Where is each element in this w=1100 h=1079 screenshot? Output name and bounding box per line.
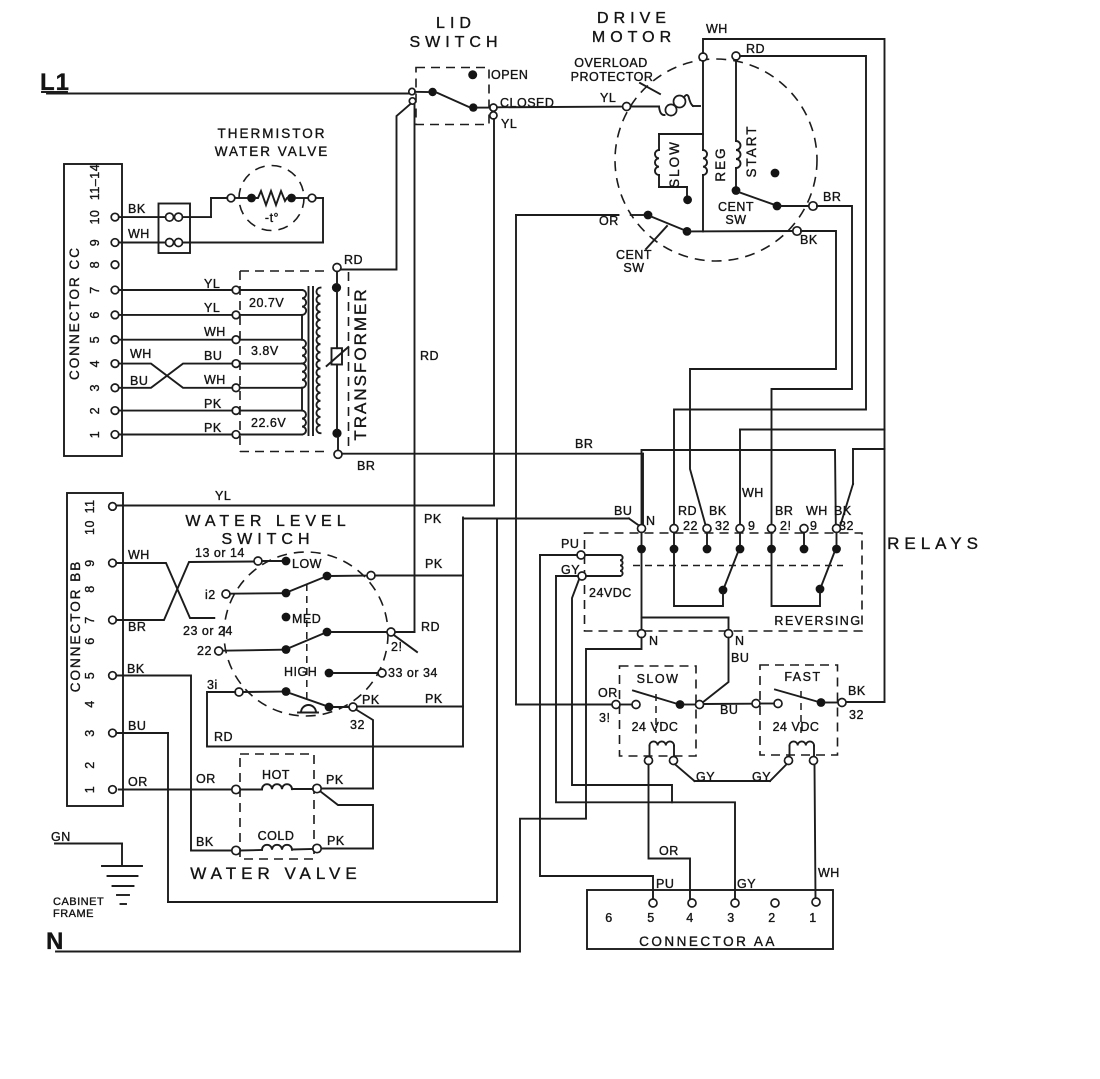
motor run centrifugal switch <box>516 211 793 236</box>
svg-text:WH: WH <box>806 504 828 518</box>
wire BR motor to relay terminal 21 <box>772 206 853 525</box>
svg-text:YL: YL <box>215 489 231 503</box>
label PK hot <box>326 773 344 787</box>
svg-text:PK: PK <box>204 397 222 411</box>
wire L1 line <box>47 93 410 95</box>
wls terminal 11 <box>367 572 375 580</box>
svg-text:HIGH: HIGH <box>284 665 317 679</box>
svg-text:23 or 24: 23 or 24 <box>183 624 233 638</box>
label WH near AA <box>818 866 840 880</box>
svg-text:YL: YL <box>204 277 220 291</box>
wls low contact fixed <box>262 557 290 566</box>
svg-text:OPEN: OPEN <box>491 68 528 82</box>
svg-text:OR: OR <box>196 772 216 786</box>
svg-text:PK: PK <box>424 512 442 526</box>
motor START winding <box>736 60 741 187</box>
svg-text:GY: GY <box>561 563 580 577</box>
svg-text:10: 10 <box>83 520 97 535</box>
connector BB rotated title <box>68 560 83 693</box>
wire PK 32 row <box>357 706 463 708</box>
relay armature dashed line <box>633 565 843 567</box>
wire YL CC pin7 <box>119 289 232 291</box>
svg-text:BU: BU <box>130 374 148 388</box>
thermistor -t label <box>265 211 279 225</box>
transformer voltage label 20.7V <box>249 296 284 310</box>
svg-text:5: 5 <box>83 672 97 679</box>
svg-text:WH: WH <box>204 325 226 339</box>
connector AA box <box>587 890 833 949</box>
svg-text:MED: MED <box>292 612 321 626</box>
wls bell symbol <box>298 705 318 712</box>
relay terminal circles and dots <box>637 525 841 554</box>
svg-text:LID: LID <box>436 15 476 32</box>
svg-text:SW: SW <box>725 213 746 227</box>
svg-text:BU: BU <box>128 719 146 733</box>
wls low-pressure switch <box>243 687 349 711</box>
label SLOW <box>637 672 680 686</box>
svg-text:3: 3 <box>88 384 102 391</box>
label GN <box>51 830 71 844</box>
slow relay box dashed <box>620 666 697 756</box>
svg-text:4: 4 <box>88 360 102 367</box>
motor REG label <box>713 146 728 181</box>
svg-text:2!: 2! <box>780 519 791 533</box>
transformer T1 dashed box <box>240 271 349 452</box>
cold solenoid <box>232 844 321 854</box>
relay contact U left <box>674 553 723 606</box>
svg-text:WH: WH <box>128 548 150 562</box>
wire PK hot valve link <box>321 788 373 790</box>
relay contact U right <box>772 553 821 606</box>
label WH <box>128 227 150 241</box>
motor BR terminal <box>809 190 842 210</box>
svg-text:32: 32 <box>715 519 730 533</box>
svg-text:HOT: HOT <box>262 768 290 782</box>
wls terminal 31 <box>207 678 243 696</box>
wire BK32 branch to relay <box>841 449 885 525</box>
svg-text:PROTECTOR: PROTECTOR <box>571 70 654 84</box>
svg-text:5: 5 <box>647 911 654 925</box>
label GY left <box>696 770 715 784</box>
wire lid CLOSED to motor YL <box>477 107 490 109</box>
svg-text:GY: GY <box>696 770 715 784</box>
thermistor RT1 dashed circle <box>239 166 304 231</box>
lid switch CLOSED label <box>500 96 554 110</box>
label PK wls mid right <box>425 557 443 571</box>
wire GY link between coils <box>675 764 787 781</box>
wls terminal 13/14 <box>195 546 262 565</box>
label MED <box>292 612 321 626</box>
svg-text:-t°: -t° <box>265 211 279 225</box>
wire OR BB pin1 to hot valve <box>119 789 232 791</box>
transformer rotated label <box>351 287 370 440</box>
label BK 32 fast <box>848 684 866 722</box>
svg-text:BK: BK <box>800 233 818 247</box>
svg-text:3: 3 <box>727 911 734 925</box>
label WATER VALVE (bottom) <box>190 864 362 883</box>
svg-text:BU: BU <box>614 504 632 518</box>
svg-text:OR: OR <box>599 214 619 228</box>
svg-text:BK: BK <box>848 684 866 698</box>
svg-text:PK: PK <box>327 834 345 848</box>
svg-text:SLOW: SLOW <box>667 140 682 188</box>
label PU near AA <box>656 877 674 891</box>
svg-text:BR: BR <box>775 504 793 518</box>
relay 24VDC coil <box>577 551 623 580</box>
wire WH fast coil to AA pin 1 <box>815 765 816 899</box>
svg-text:N: N <box>649 634 659 648</box>
wls med switch <box>223 628 387 654</box>
svg-text:CABINET: CABINET <box>53 896 104 908</box>
transformer core <box>309 287 314 435</box>
svg-text:22: 22 <box>683 519 698 533</box>
svg-text:24 VDC: 24 VDC <box>632 720 679 734</box>
wire GY parallel branch <box>572 580 672 803</box>
wire PK CC pin1 <box>119 434 232 436</box>
wls high contact <box>325 669 378 678</box>
svg-text:9: 9 <box>748 519 755 533</box>
svg-text:FAST: FAST <box>784 670 821 684</box>
relay terminal labels <box>614 486 854 533</box>
fast relay coil <box>773 720 820 765</box>
connector CC pins 11-14 label <box>88 164 102 200</box>
label BK <box>128 202 146 216</box>
svg-text:6: 6 <box>88 311 102 318</box>
svg-text:START: START <box>744 124 759 177</box>
slow relay contact <box>620 691 704 734</box>
svg-text:RELAYS: RELAYS <box>887 534 983 553</box>
svg-text:6: 6 <box>83 637 97 644</box>
hot solenoid <box>232 784 321 793</box>
overload protector element <box>631 95 700 116</box>
lid switch OPEN label <box>491 68 528 82</box>
transformer primary terminals <box>232 286 302 438</box>
svg-text:5: 5 <box>88 336 102 343</box>
svg-text:YL: YL <box>204 301 220 315</box>
svg-text:3: 3 <box>83 729 97 736</box>
ground wire <box>55 844 122 867</box>
svg-text:WH: WH <box>742 486 764 500</box>
svg-text:WH: WH <box>128 227 150 241</box>
wire YL lid-switch down to connector BB pin 11 <box>117 119 494 506</box>
label BU under N <box>731 651 749 665</box>
svg-text:33 or 34: 33 or 34 <box>388 666 438 680</box>
wls terminal 33/34 <box>378 666 438 680</box>
svg-text:9: 9 <box>88 239 102 246</box>
svg-text:TRANSFORMER: TRANSFORMER <box>351 287 370 440</box>
label OR 31 <box>598 686 618 725</box>
svg-text:DRIVE: DRIVE <box>597 10 671 27</box>
svg-text:8: 8 <box>83 585 97 592</box>
wire BK motor to relay terminal 32 <box>690 231 836 525</box>
svg-text:2: 2 <box>768 911 775 925</box>
motor OR label <box>599 214 619 228</box>
label LOW <box>292 557 322 571</box>
motor start centrifugal switch <box>732 186 809 210</box>
svg-text:PK: PK <box>425 557 443 571</box>
svg-text:RD: RD <box>214 730 233 744</box>
svg-text:1: 1 <box>83 786 97 793</box>
svg-text:WH: WH <box>204 373 226 387</box>
drive motor M1 dashed circle <box>615 59 817 261</box>
wire OR motor to slow relay <box>515 215 517 705</box>
label RD on vertical wire <box>420 349 439 363</box>
svg-text:PK: PK <box>362 693 380 707</box>
svg-text:2!: 2! <box>391 640 402 654</box>
svg-text:1: 1 <box>88 431 102 438</box>
transformer primary winding <box>302 290 306 435</box>
svg-text:10: 10 <box>88 210 102 225</box>
svg-text:CONNECTOR AA: CONNECTOR AA <box>639 934 777 949</box>
label YL at motor <box>600 91 616 105</box>
svg-text:PK: PK <box>204 421 222 435</box>
lid switch arm <box>415 92 470 107</box>
svg-text:LOW: LOW <box>292 557 322 571</box>
svg-text:SLOW: SLOW <box>637 672 680 686</box>
label REVERSING <box>774 614 861 628</box>
wire BR transformer bottom to relay N terminal <box>342 454 643 525</box>
wls low switch <box>230 572 367 598</box>
net label N <box>46 928 64 955</box>
label N lower-left <box>649 634 659 648</box>
label RD wls right <box>421 620 440 634</box>
wire BK BB pin5 to cold valve <box>116 676 232 851</box>
svg-text:BR: BR <box>823 190 841 204</box>
wire PK cold valve link <box>321 792 374 849</box>
svg-text:3!: 3! <box>599 711 610 725</box>
svg-text:GY: GY <box>752 770 771 784</box>
net label L1 <box>40 69 70 96</box>
label YL on wire <box>215 489 231 503</box>
label RELAYS <box>887 534 983 553</box>
wire BR BB pin7 crossover <box>116 562 254 621</box>
wire BK pin10 to thermistor <box>119 198 227 217</box>
wire BU bus slow to fast <box>704 703 752 705</box>
svg-text:WH: WH <box>130 347 152 361</box>
svg-text:PU: PU <box>561 537 579 551</box>
wire PK 32 to hot valve <box>356 710 373 789</box>
wire RD lid switch long vertical to water level switch 21 <box>395 105 415 633</box>
label HIGH <box>284 665 317 679</box>
svg-text:YL: YL <box>600 91 616 105</box>
label OR near AA <box>659 844 679 858</box>
svg-text:CONNECTOR BB: CONNECTOR BB <box>68 560 83 693</box>
wire N terminal chain down <box>638 553 733 638</box>
wire PK CC pin2 <box>119 410 232 412</box>
lid switch terminals <box>409 70 497 119</box>
slow relay OR input <box>516 701 620 709</box>
transformer voltage label 22.6V <box>251 416 286 430</box>
wire WH motor to relay terminal 9 <box>703 39 885 525</box>
svg-text:RD: RD <box>746 42 765 56</box>
label GY near AA <box>737 877 756 891</box>
connector BB box <box>67 493 123 806</box>
svg-text:RD: RD <box>421 620 440 634</box>
svg-text:YL: YL <box>501 117 517 131</box>
label CONNECTOR AA <box>639 934 777 949</box>
wire N relay bridge to BK32 terminal <box>642 450 836 525</box>
svg-text:BU: BU <box>731 651 749 665</box>
motor lower pointer <box>646 226 667 249</box>
inline connector block <box>159 204 191 254</box>
svg-text:GY: GY <box>737 877 756 891</box>
wire RD 31 loop <box>207 692 463 747</box>
motor SLOW label <box>667 140 682 188</box>
wls terminal 21 <box>387 628 402 654</box>
connector CC rotated title <box>67 246 82 380</box>
fast relay contact <box>752 690 846 734</box>
relay contact arm right <box>816 552 835 593</box>
svg-text:9: 9 <box>810 519 817 533</box>
slow relay coil <box>632 720 679 765</box>
svg-text:REVERSING: REVERSING <box>774 614 861 628</box>
wls 21 stub arm <box>395 636 418 653</box>
svg-text:32: 32 <box>839 519 854 533</box>
wire WH pin9 to thermistor <box>119 198 323 243</box>
transformer wire labels <box>130 277 226 435</box>
svg-text:COLD: COLD <box>258 829 295 843</box>
ground symbol <box>102 866 142 904</box>
wls center axis <box>306 584 308 700</box>
wire BK32 to FAST relay contact <box>846 449 885 702</box>
relay coil labels <box>561 537 632 600</box>
svg-text:7: 7 <box>83 616 97 623</box>
label LID SWITCH <box>409 15 502 51</box>
wire RD motor to relay terminal 22 <box>674 56 866 525</box>
svg-text:PK: PK <box>326 773 344 787</box>
thermistor resistor element <box>247 191 296 205</box>
label BR on wire <box>575 437 593 451</box>
svg-text:11: 11 <box>83 499 97 513</box>
svg-text:11–14: 11–14 <box>88 164 102 200</box>
transformer RD label <box>344 253 363 267</box>
svg-text:32: 32 <box>849 708 864 722</box>
svg-text:WH: WH <box>818 866 840 880</box>
svg-text:20.7V: 20.7V <box>249 296 284 310</box>
svg-text:OVERLOAD: OVERLOAD <box>574 56 647 70</box>
svg-text:6: 6 <box>605 911 612 925</box>
motor stray contact dot <box>771 169 780 178</box>
svg-text:2: 2 <box>83 761 97 768</box>
svg-text:PU: PU <box>656 877 674 891</box>
wls terminal 32 <box>349 703 365 732</box>
svg-text:WATER VALVE: WATER VALVE <box>190 864 362 883</box>
wire BU relay N to BB pin3 <box>116 519 639 903</box>
motor CENT SW label upper <box>718 200 754 227</box>
svg-text:REG: REG <box>713 146 728 181</box>
wire YL CC pin6 <box>119 314 232 316</box>
transformer varistor <box>327 272 349 451</box>
connector BB pins <box>83 499 116 793</box>
label GY right <box>752 770 771 784</box>
svg-text:BK: BK <box>709 504 727 518</box>
wire PK vertical <box>462 518 464 747</box>
svg-text:GN: GN <box>51 830 71 844</box>
svg-text:BK: BK <box>834 504 852 518</box>
label FAST <box>784 670 821 684</box>
svg-text:BK: BK <box>127 662 145 676</box>
water valve dashed box <box>240 754 314 859</box>
wls terminal 22 <box>197 644 223 658</box>
svg-text:BU: BU <box>204 349 222 363</box>
label CABINET FRAME <box>53 896 104 920</box>
motor RD terminal <box>732 42 765 60</box>
wire RD lid switch to transformer primary top <box>342 104 411 270</box>
motor YL terminal <box>623 103 631 111</box>
svg-text:CENT: CENT <box>616 248 652 262</box>
transformer secondary terminals <box>332 264 342 459</box>
svg-text:2: 2 <box>88 407 102 414</box>
label RD wls <box>214 730 233 744</box>
label OVERLOAD PROTECTOR <box>571 56 654 84</box>
svg-text:SW: SW <box>623 261 644 275</box>
svg-text:32: 32 <box>350 718 365 732</box>
svg-text:N: N <box>646 514 656 528</box>
wire WH BB pin9 crossover <box>116 563 214 618</box>
svg-text:22: 22 <box>197 644 212 658</box>
wire BU N to slow-fast bus <box>703 638 729 703</box>
lid switch S1 box <box>416 68 489 125</box>
svg-text:MOTOR: MOTOR <box>592 29 676 46</box>
svg-text:OR: OR <box>598 686 618 700</box>
label BK valve <box>196 835 214 849</box>
svg-text:N: N <box>735 634 745 648</box>
label THERMISTOR WATER VALVE <box>215 126 330 159</box>
svg-text:RD: RD <box>344 253 363 267</box>
label PK cold <box>327 834 345 848</box>
wire CC pin3 crossover <box>119 364 232 388</box>
motor REG winding vertical <box>703 61 707 231</box>
thermistor leads <box>227 194 316 202</box>
svg-text:BU: BU <box>720 703 738 717</box>
wls med contact fixed <box>282 613 291 622</box>
label BU mid <box>720 703 738 717</box>
label PK wls upper right <box>424 512 442 526</box>
wire CC pin4 crossover <box>119 364 232 388</box>
svg-text:SWITCH: SWITCH <box>409 34 502 51</box>
motor SLOW winding <box>655 134 703 204</box>
transformer BR label <box>357 459 375 473</box>
label OR mid <box>196 772 216 786</box>
svg-text:9: 9 <box>83 559 97 566</box>
lid switch YL label <box>501 117 517 131</box>
svg-text:1: 1 <box>809 911 816 925</box>
svg-text:RD: RD <box>420 349 439 363</box>
svg-text:CENT: CENT <box>718 200 754 214</box>
transformer voltage label 3.8V <box>251 344 279 358</box>
label COLD <box>258 829 295 843</box>
svg-text:24 VDC: 24 VDC <box>773 720 820 734</box>
label WATER LEVEL SWITCH <box>185 513 350 548</box>
svg-text:BR: BR <box>357 459 375 473</box>
connector CC box <box>64 164 122 456</box>
svg-text:13 or 14: 13 or 14 <box>195 546 245 560</box>
svg-text:4: 4 <box>83 700 97 707</box>
transformer secondary winding <box>316 288 320 434</box>
svg-text:BR: BR <box>575 437 593 451</box>
relay contact arm left <box>719 552 738 594</box>
svg-text:7: 7 <box>88 286 102 293</box>
svg-text:22.6V: 22.6V <box>251 416 286 430</box>
connector AA pins <box>605 898 820 925</box>
wire WH CC pin5 <box>119 339 232 341</box>
motor CENT SW label lower <box>616 248 652 275</box>
label N lower-right <box>735 634 745 648</box>
svg-text:WATER LEVEL: WATER LEVEL <box>185 513 350 530</box>
motor WH terminal <box>699 22 728 61</box>
fast relay box dashed <box>760 665 838 755</box>
svg-text:OR: OR <box>659 844 679 858</box>
